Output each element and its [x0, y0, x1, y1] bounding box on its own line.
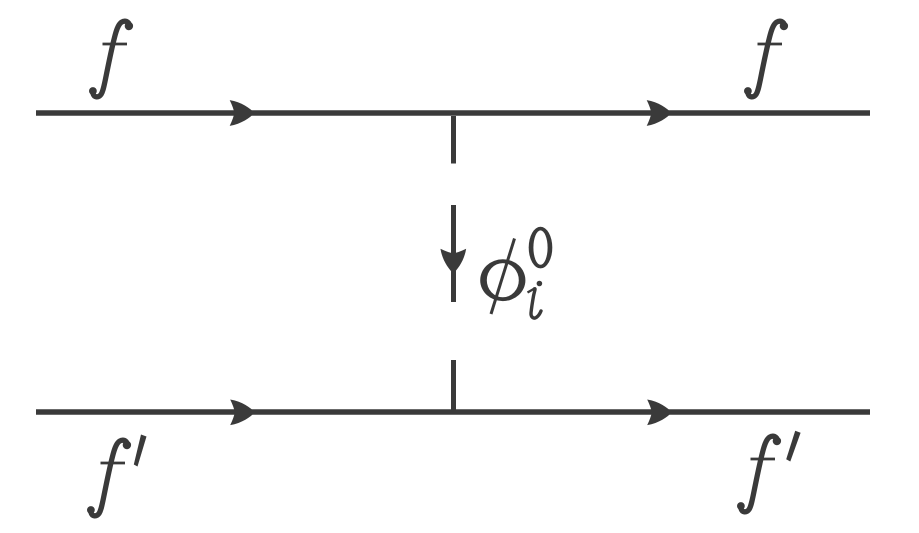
fermion line f (top) — [36, 110, 870, 116]
arrow on scalar propagator (pointing down) — [440, 249, 466, 274]
scalar propagator phi_i^0 dashed line segment 3 — [451, 360, 456, 410]
label f' (bottom left): prime part — [134, 435, 147, 467]
arrow on bottom fermion line (left) — [230, 399, 255, 425]
label f (top left) — [89, 21, 133, 97]
label f' (bottom left): f part — [87, 440, 131, 516]
scalar propagator phi_i^0 dashed line segment 2 — [451, 205, 456, 302]
arrow on bottom fermion line (right) — [647, 399, 672, 425]
label phi (slash stroke of phi symbol) — [491, 239, 515, 315]
label f' (bottom right): prime part — [786, 431, 800, 462]
fermion line f' (bottom) — [36, 409, 870, 415]
label subscript i on phi: body — [528, 289, 542, 319]
label phi (circle body of phi symbol) — [480, 259, 525, 301]
label superscript 0 on phi — [529, 227, 553, 269]
label f (top right) — [744, 21, 788, 97]
scalar propagator phi_i^0 dashed line segment 1 — [451, 116, 456, 164]
arrow on top fermion line (left) — [230, 100, 255, 126]
label subscript i on phi: dot — [537, 281, 543, 287]
label f' (bottom right): f part — [737, 436, 781, 512]
arrow on top fermion line (right) — [647, 100, 672, 126]
